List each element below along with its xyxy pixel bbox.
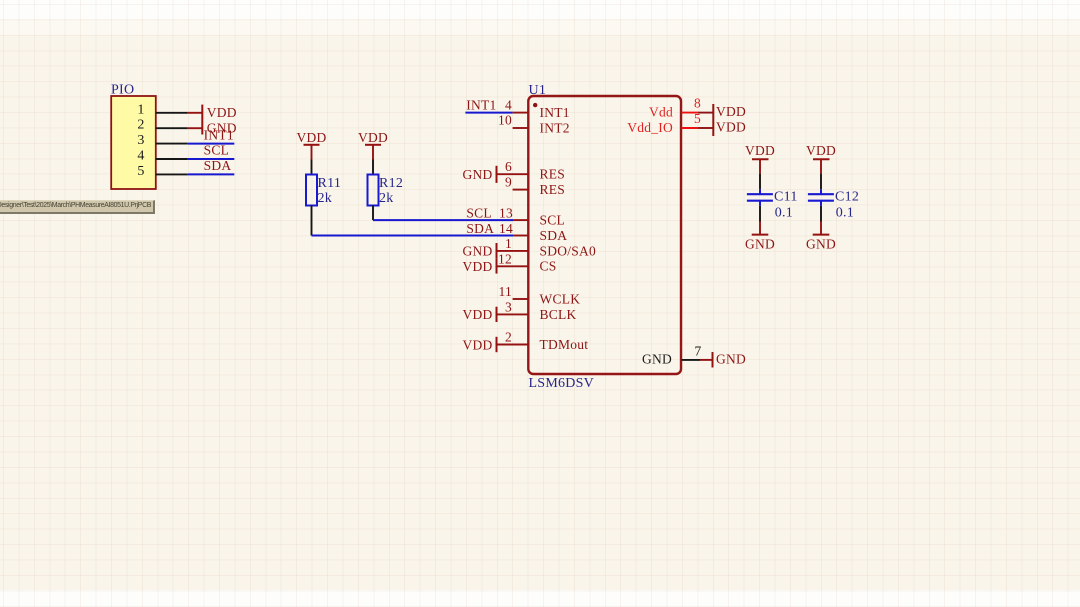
- svg-text:VDD: VDD: [716, 104, 746, 119]
- svg-text:VDD: VDD: [463, 307, 493, 322]
- svg-text:1: 1: [137, 102, 144, 117]
- svg-text:3: 3: [137, 133, 144, 148]
- pin 5 wire dark: [698, 127, 713, 129]
- svg-text:R12: R12: [379, 176, 403, 191]
- svg-text:SCL: SCL: [540, 213, 566, 228]
- svg-text:LSM6DSV: LSM6DSV: [529, 376, 595, 391]
- pin 10 stub INT2: [513, 127, 529, 129]
- pin 7 wire red: [700, 359, 713, 361]
- wire C11 bottom black: [759, 206, 761, 222]
- pin 8 stub bright: [682, 112, 698, 114]
- wire SCL bus blue: [373, 219, 513, 221]
- svg-text:C12: C12: [835, 189, 859, 204]
- svg-text:GND: GND: [463, 244, 493, 259]
- power port bar GND pin7: [712, 352, 714, 368]
- wire VDD to R12: [372, 160, 374, 175]
- svg-text:VDD: VDD: [207, 105, 237, 120]
- wire pin1 black: [156, 112, 188, 114]
- svg-text:BCLK: BCLK: [540, 307, 577, 322]
- svg-text:C11: C11: [774, 189, 798, 204]
- wire GND red segment: [188, 127, 203, 129]
- svg-text:2k: 2k: [318, 191, 333, 206]
- wire SCL blue at connector: [188, 158, 235, 160]
- power port bar GND below C12: [813, 234, 830, 236]
- svg-text:INT1: INT1: [204, 127, 234, 142]
- svg-text:3: 3: [505, 300, 512, 315]
- pin 12 stub CS: [497, 265, 529, 267]
- svg-text:SCL: SCL: [466, 205, 492, 220]
- svg-text:RES: RES: [540, 167, 566, 182]
- capacitor C12: [820, 189, 822, 194]
- wire C12 top black: [820, 174, 822, 190]
- pin 6 stub RES: [497, 173, 529, 175]
- svg-text:5: 5: [694, 111, 701, 126]
- svg-text:INT2: INT2: [540, 120, 570, 135]
- svg-text:Vdd_IO: Vdd_IO: [627, 120, 673, 135]
- svg-text:4: 4: [505, 97, 512, 112]
- pin 4 stub INT1: [513, 112, 529, 114]
- connector J PIO body: [111, 96, 156, 189]
- pin 5 stub bright: [682, 127, 698, 129]
- svg-text:0.1: 0.1: [775, 206, 793, 221]
- power port bar VDD right of U1: [712, 104, 714, 136]
- svg-text:TDMout: TDMout: [540, 337, 589, 352]
- svg-text:VDD: VDD: [463, 259, 493, 274]
- pin 9 stub RES: [513, 189, 529, 191]
- power port bar GND below C11: [752, 234, 769, 236]
- svg-text:2k: 2k: [379, 191, 394, 206]
- svg-text:VDD: VDD: [716, 120, 746, 135]
- svg-text:GND: GND: [745, 236, 775, 251]
- pin 13 stub SCL: [513, 219, 528, 221]
- svg-text:6: 6: [505, 159, 512, 174]
- svg-text:1: 1: [505, 236, 512, 251]
- svg-text:SDA: SDA: [466, 221, 494, 236]
- resistor R12 body: [368, 175, 379, 206]
- wire C11 bottom red: [759, 222, 761, 235]
- pin 1 stub SDO/SA0: [497, 250, 529, 252]
- IC U1 body: [528, 96, 681, 374]
- pin 1 indicator dot: [533, 103, 537, 107]
- svg-text:11: 11: [499, 284, 513, 299]
- svg-text:GND: GND: [463, 167, 493, 182]
- svg-text:4: 4: [137, 149, 144, 164]
- wire VDD to R11: [311, 160, 313, 175]
- pin 7 stub black: [682, 359, 700, 361]
- svg-text:GND: GND: [642, 351, 672, 366]
- svg-text:SDO/SA0: SDO/SA0: [540, 243, 597, 258]
- pin 2 stub TDMout: [497, 344, 529, 346]
- pin 8 wire dark: [698, 112, 713, 114]
- svg-text:10: 10: [498, 113, 512, 128]
- svg-text:GND: GND: [716, 351, 746, 366]
- capacitor C11: [759, 189, 761, 194]
- svg-text:VDD: VDD: [806, 143, 836, 158]
- svg-text:8: 8: [694, 95, 701, 110]
- resistor R11 body: [306, 175, 317, 206]
- svg-text:U1: U1: [529, 83, 547, 98]
- wire SDA bus blue: [312, 235, 514, 237]
- svg-text:INT1: INT1: [540, 105, 570, 120]
- wire pin5 black: [156, 173, 188, 175]
- pin 11 stub WCLK: [513, 298, 529, 300]
- svg-text:2: 2: [137, 118, 144, 133]
- svg-text:Vdd: Vdd: [649, 105, 673, 120]
- svg-text:SDA: SDA: [540, 228, 568, 243]
- wire INT1 blue at connector: [188, 143, 235, 145]
- wire pin2 black: [156, 127, 188, 129]
- wire SDA blue at connector: [188, 173, 235, 175]
- wire pin3 black: [156, 143, 188, 145]
- pin 3 stub BCLK: [497, 313, 529, 315]
- svg-text:R11: R11: [318, 176, 342, 191]
- svg-text:PIO: PIO: [111, 83, 134, 98]
- svg-text:0.1: 0.1: [836, 206, 854, 221]
- svg-text:GND: GND: [806, 236, 836, 251]
- svg-text:VDD: VDD: [358, 130, 388, 145]
- wire C12 bottom red: [820, 222, 822, 235]
- svg-text:7: 7: [695, 344, 702, 359]
- tooltip file path: [0, 200, 155, 214]
- svg-text:12: 12: [498, 251, 512, 266]
- svg-text:RES: RES: [540, 182, 566, 197]
- wire C12 bottom black: [820, 206, 822, 222]
- svg-text:VDD: VDD: [463, 337, 493, 352]
- svg-text:CS: CS: [540, 259, 557, 274]
- svg-text:2: 2: [505, 330, 512, 345]
- svg-text:WCLK: WCLK: [540, 291, 581, 306]
- wire R11 bottom black: [311, 206, 313, 236]
- svg-text:SDA: SDA: [204, 158, 232, 173]
- wire INT1 blue at U1: [465, 112, 512, 114]
- svg-text:5: 5: [137, 164, 144, 179]
- pin 14 stub SDA: [513, 235, 528, 237]
- svg-text:VDD: VDD: [297, 130, 327, 145]
- wire pin4 black: [156, 158, 188, 160]
- svg-text:14: 14: [499, 221, 513, 236]
- svg-text:13: 13: [499, 205, 513, 220]
- svg-text:INT1: INT1: [466, 98, 496, 113]
- wire R12 bottom black: [372, 206, 374, 221]
- svg-text:VDD: VDD: [745, 143, 775, 158]
- svg-text:9: 9: [505, 174, 512, 189]
- svg-text:SCL: SCL: [204, 143, 230, 158]
- wire C11 top black: [759, 174, 761, 190]
- power port bar VDD/GND at connector: [201, 105, 203, 135]
- wire VDD red segment: [188, 112, 203, 114]
